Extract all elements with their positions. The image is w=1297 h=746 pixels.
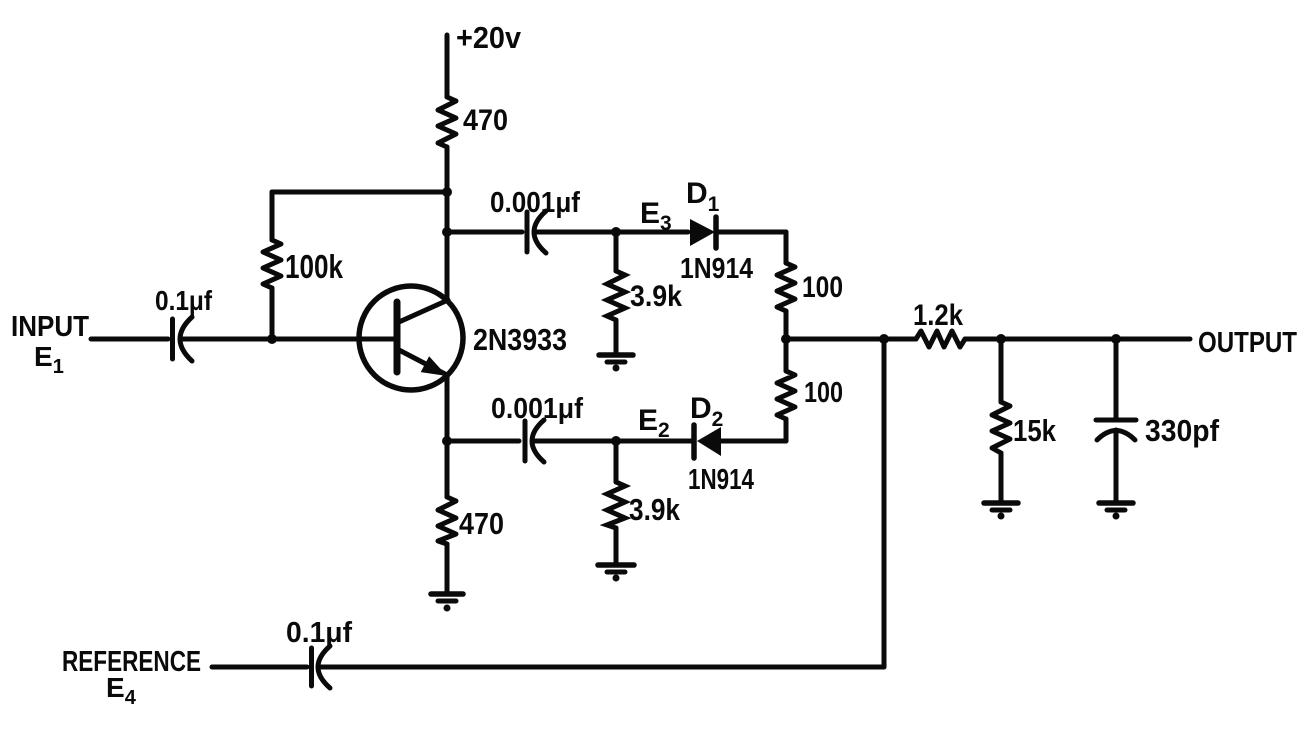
resistor R1 470 (top) bbox=[438, 97, 456, 147]
transistor Q1 emitter arrowhead bbox=[421, 356, 447, 376]
wire R8 to ground bbox=[999, 453, 1004, 501]
wire collector rail bbox=[445, 147, 450, 300]
transistor Q1 emitter stroke bbox=[399, 350, 445, 374]
ground emitter bbox=[431, 594, 463, 612]
node E3 junction bbox=[611, 227, 621, 237]
node E2 junction bbox=[611, 436, 621, 446]
svg-text:REFERENCE: REFERENCE bbox=[62, 646, 201, 678]
wire 330pf drop bbox=[1114, 339, 1119, 419]
wire C4 to ground bbox=[1114, 430, 1119, 501]
wire R7 to output bbox=[965, 337, 1190, 342]
svg-text:1.2k: 1.2k bbox=[913, 299, 963, 332]
resistor R3 470 (bottom) bbox=[438, 497, 456, 544]
svg-text:100k: 100k bbox=[285, 248, 344, 285]
svg-text:330pf: 330pf bbox=[1145, 413, 1220, 448]
capacitor C5 0.1uf reference left plate bbox=[309, 648, 314, 686]
wire D2 to corner bbox=[721, 439, 786, 444]
wire base bbox=[182, 337, 397, 342]
wire 15k drop bbox=[999, 339, 1004, 402]
resistor R5 100 (upper) bbox=[777, 263, 795, 311]
transistor Q1 collector stroke bbox=[399, 300, 448, 322]
wire emitter rail bbox=[445, 375, 450, 441]
resistor R8 15k bbox=[992, 402, 1010, 453]
wire corner down to R5 bbox=[784, 232, 789, 263]
capacitor C5 0.1uf reference curved plate bbox=[318, 646, 330, 688]
svg-text:100: 100 bbox=[802, 271, 843, 304]
capacitor C1 0.1uf input curved plate bbox=[180, 317, 192, 361]
capacitor C2 0.001uf top left plate bbox=[525, 212, 530, 252]
wire C2 to node E3 and D1 bbox=[535, 230, 688, 235]
node summing junction bbox=[781, 334, 791, 344]
capacitor C2 0.001uf top curved plate bbox=[534, 211, 546, 253]
svg-text:15k: 15k bbox=[1013, 413, 1057, 448]
node junction collector-C2 bbox=[442, 227, 452, 237]
wire summing node to R6 bbox=[784, 339, 789, 371]
diode D1 cathode bar bbox=[713, 217, 719, 248]
wire reference run bbox=[319, 665, 884, 670]
svg-text:2N3933: 2N3933 bbox=[473, 322, 567, 357]
wire D1 to corner bbox=[716, 230, 786, 235]
ground 330pf bbox=[1099, 503, 1133, 520]
node 330pf tap junction bbox=[1111, 334, 1121, 344]
svg-text:OUTPUT: OUTPUT bbox=[1198, 327, 1297, 359]
transistor Q1 2N3933 circle bbox=[359, 286, 463, 390]
resistor R4 3.9k top branch wire bbox=[614, 232, 619, 271]
resistor R4 3.9k top zigzag bbox=[607, 271, 625, 320]
resistor R6 100 (lower) bbox=[777, 371, 795, 419]
wire +20v supply drop bbox=[445, 35, 450, 97]
resistor R2 100k bbox=[263, 240, 281, 288]
node junction base bbox=[267, 334, 277, 344]
node junction emitter-C3 bbox=[442, 436, 452, 446]
diode D2 triangle bbox=[697, 427, 721, 456]
svg-text:+20v: +20v bbox=[456, 20, 522, 55]
diode D1 triangle bbox=[690, 219, 715, 246]
diode D2 cathode bar bbox=[691, 425, 697, 458]
wire R3 to ground bbox=[445, 544, 450, 592]
capacitor C3 0.001uf bottom left plate bbox=[523, 421, 528, 461]
transistor Q1 base bar bbox=[394, 302, 401, 372]
svg-text:100: 100 bbox=[804, 377, 843, 409]
wire reference riser bbox=[882, 339, 887, 667]
svg-text:0.1μf: 0.1μf bbox=[155, 285, 213, 316]
ground 15k bbox=[984, 503, 1018, 520]
svg-text:0.001μf: 0.001μf bbox=[491, 393, 583, 425]
capacitor C1 0.1uf input left plate bbox=[170, 319, 175, 359]
wire emitter to C3 bbox=[447, 439, 519, 444]
capacitor C4 330pf curved plate bbox=[1097, 431, 1135, 441]
capacitor C4 330pf top plate bbox=[1096, 418, 1136, 423]
ground 3.9k top bbox=[599, 355, 633, 372]
svg-text:470: 470 bbox=[463, 104, 508, 137]
svg-text:470: 470 bbox=[459, 506, 504, 541]
wire summing node to R7 bbox=[786, 337, 916, 342]
svg-text:1N914: 1N914 bbox=[688, 464, 754, 496]
node junction collector-feedback bbox=[442, 187, 452, 197]
svg-text:INPUT: INPUT bbox=[11, 311, 89, 343]
resistor R9 3.9k bottom branch wire bbox=[614, 441, 619, 482]
wire feedback top bbox=[272, 190, 447, 195]
svg-text:0.1μf: 0.1μf bbox=[286, 617, 352, 649]
resistor R7 1.2k bbox=[916, 331, 965, 347]
wire collector to C2 bbox=[447, 230, 522, 235]
wire input lead bbox=[91, 337, 168, 342]
wire R6 to corner bbox=[784, 419, 789, 441]
svg-text:3.9k: 3.9k bbox=[629, 492, 681, 527]
wire C3 to node E2 and D2 bbox=[533, 439, 692, 444]
node 15k tap junction bbox=[996, 334, 1006, 344]
resistor R9 3.9k bottom zigzag bbox=[607, 482, 625, 528]
wire R4 to ground bbox=[614, 320, 619, 353]
svg-text:0.001μf: 0.001μf bbox=[490, 187, 580, 219]
wire emitter node to R3 bbox=[445, 441, 450, 497]
wire R5 to summing node bbox=[784, 311, 789, 339]
svg-text:1N914: 1N914 bbox=[680, 253, 753, 285]
wire 100k to base node bbox=[270, 288, 275, 339]
wire R9 to ground bbox=[614, 528, 619, 563]
capacitor C3 0.001uf bottom curved plate bbox=[532, 420, 544, 462]
svg-text:3.9k: 3.9k bbox=[630, 280, 682, 313]
node reference junction bbox=[879, 334, 889, 344]
ground 3.9k bottom bbox=[598, 565, 634, 582]
wire reference lead bbox=[212, 665, 307, 670]
wire feedback drop bbox=[270, 192, 275, 240]
